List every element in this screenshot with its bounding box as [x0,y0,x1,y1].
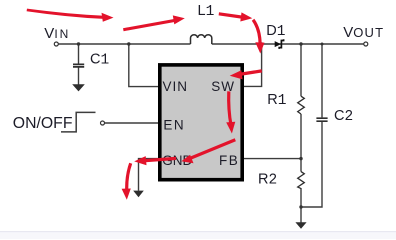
svg-text:VIN: VIN [44,25,70,42]
svg-text:ON/OFF: ON/OFF [13,115,73,132]
svg-text:L1: L1 [198,3,215,20]
wire GND stub and down [139,159,159,191]
red annotation arrow 2 (toward L1) [123,18,178,31]
ground bottom right [295,222,306,229]
rising edge symbol at ON/OFF [61,112,96,131]
page footer strip [0,232,396,239]
wire top rail VIN to L1 [58,43,190,45]
red annotation arrow 1 (top left) [27,9,104,19]
diode D1 [275,41,281,47]
junction dot C2 bottom [299,205,302,208]
red annotation arrow 8 (GND leftward) [142,157,176,163]
resistor R2 [298,172,305,189]
junction dot R1/rail [299,42,302,45]
junction dot VIN stub/rail [127,42,130,45]
wire C2 top [321,44,323,117]
wire C2 bottom [301,122,322,207]
inductor L1 [191,35,212,44]
ground below C1 [72,84,85,91]
wire VIN pin stub [129,44,159,87]
capacitor C2 [316,118,327,121]
red annotation arrow 3 (after L1) [219,12,246,19]
wire R1-R2 middle [300,114,302,172]
svg-text:SW: SW [211,79,235,94]
svg-text:C2: C2 [334,108,353,125]
ground below GND pin [133,191,144,198]
wire FB to divider [244,158,302,160]
wire top rail L1 to VOUT [212,43,364,45]
wire SW pin to rail [244,44,262,86]
red annotation arrow 6 (SW down inside IC) [227,91,233,125]
red annotation arrow 4 (down to SW node) [252,19,262,46]
wire C1 branch [78,44,80,85]
op-amp U1 regulator IC body [160,65,242,180]
red annotation arrow 9 (down to ground) [125,163,132,192]
red annotation arrow 5 (into SW pin) [238,69,263,76]
svg-text:D1: D1 [266,23,285,40]
svg-text:R2: R2 [258,172,277,189]
junction dot SW/rail [260,42,263,45]
svg-text:VOUT: VOUT [343,24,384,41]
svg-text:FB: FB [219,153,239,168]
svg-text:C1: C1 [90,52,109,69]
wire R2 bottom to ground [300,188,302,223]
terminal ON/OFF [101,121,105,125]
svg-text:EN: EN [163,118,185,133]
junction dot C1/rail [77,42,80,45]
wire R1 top [300,44,302,96]
terminal VIN [54,42,58,46]
red annotation arrow 7 (to GND pin) [189,138,236,160]
svg-text:R1: R1 [267,92,286,109]
capacitor C1 [73,64,84,67]
junction dot FB/divider [299,157,302,160]
resistor R1 [298,96,305,114]
terminal VOUT [364,42,368,46]
wire EN from switch [105,122,159,124]
svg-text:VIN: VIN [163,79,189,94]
junction dot C2/rail [321,43,324,46]
